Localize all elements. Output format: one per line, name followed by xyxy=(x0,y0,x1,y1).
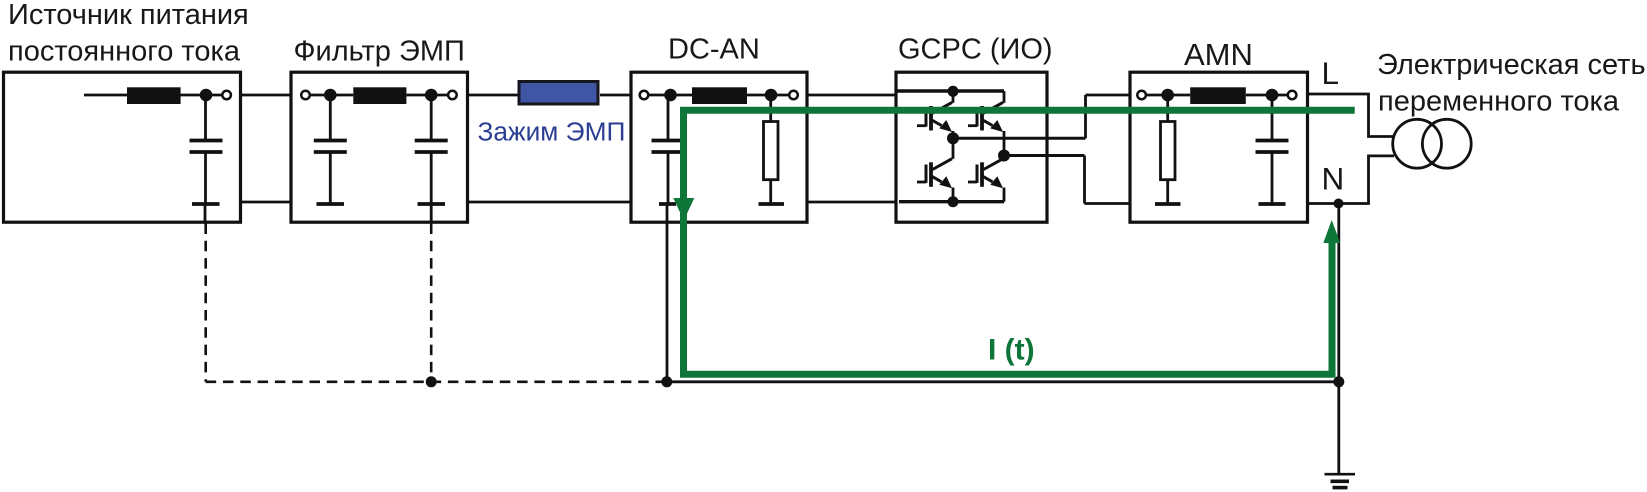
wire filter cap1 top xyxy=(329,95,332,140)
inductor L2 filter xyxy=(353,87,406,104)
wire top rail DC-AN to GCPC xyxy=(807,94,897,97)
wire DC-AN cap top xyxy=(667,95,670,140)
terminal source output xyxy=(222,91,231,100)
svg-text:L: L xyxy=(1322,55,1340,91)
transistor Q4 bottom-right IGBT xyxy=(968,156,1004,202)
bar AMN cap ground xyxy=(1259,202,1286,206)
node N junction xyxy=(1334,199,1344,209)
bar DC-AN cap ground xyxy=(659,202,676,206)
terminal filter input xyxy=(301,91,310,100)
block EMI filter box xyxy=(291,72,468,222)
wire AMN resistor bottom xyxy=(1166,180,1169,203)
ferrite clamp EMI xyxy=(519,82,598,105)
ground xyxy=(1325,474,1356,487)
bar filter cap2 ground xyxy=(418,202,446,206)
terminal DC-AN output xyxy=(789,91,798,100)
wire GCPC phase A riser xyxy=(1084,95,1087,138)
wire filter cap2 top xyxy=(430,95,433,140)
node GCPC bottom junction xyxy=(948,196,959,207)
terminal AMN input xyxy=(1137,91,1146,100)
wire source cap stub xyxy=(204,204,207,222)
bar DC-AN resistor ground xyxy=(759,202,785,206)
wire DC-AN input xyxy=(648,94,692,97)
terminal DC-AN input xyxy=(640,91,649,100)
node AMN right junction xyxy=(1266,89,1279,102)
wire AMN to mains N xyxy=(1308,156,1394,204)
transistor Q2 bottom-left IGBT xyxy=(917,138,953,201)
wire source internal xyxy=(84,94,206,97)
inductor L4 AMN xyxy=(1190,87,1246,104)
node filter left junction xyxy=(324,89,337,102)
wire GCPC phase A xyxy=(953,137,1086,140)
wire GCPC bottom rail xyxy=(899,200,1004,203)
node reference ground left xyxy=(661,376,672,387)
capacitor C3 filter xyxy=(415,141,448,153)
block GCPC box xyxy=(896,72,1047,222)
wire source cap top xyxy=(204,95,207,140)
wire filter output xyxy=(406,94,448,97)
current loop I(t) green path xyxy=(684,110,1355,374)
svg-text:Электрическая сеть: Электрическая сеть xyxy=(1377,49,1646,81)
wire bottom rail filter to DC-AN xyxy=(468,201,632,204)
wire AMN output xyxy=(1246,94,1289,97)
svg-text:постоянного тока: постоянного тока xyxy=(8,36,241,68)
wire DC-AN resistor bottom xyxy=(769,180,772,203)
svg-text:Источник питания: Источник питания xyxy=(8,0,249,31)
wire dashed bottom link xyxy=(206,380,667,383)
wire AMN cap top xyxy=(1271,95,1274,140)
svg-text:N: N xyxy=(1322,161,1345,197)
wire dashed source drop xyxy=(204,224,207,382)
wire bottom rail DC-AN to GCPC xyxy=(807,201,897,204)
wire top rail source to filter xyxy=(241,94,292,97)
wire dashed filter drop xyxy=(430,224,433,382)
block AMN box xyxy=(1130,72,1308,222)
node GCPC top junction xyxy=(948,86,959,97)
wire phase B to AMN xyxy=(1085,202,1131,205)
node GCPC mid-right junction xyxy=(998,150,1010,162)
transistor Q1 top-left IGBT xyxy=(917,91,953,138)
svg-text:Зажим ЭМП: Зажим ЭМП xyxy=(478,117,626,147)
svg-text:Фильтр ЭМП: Фильтр ЭМП xyxy=(294,36,465,68)
capacitor C5 AMN xyxy=(1256,141,1289,153)
node dashed junction xyxy=(426,376,437,387)
arrow down current into ground xyxy=(673,198,694,221)
wire AMN cap bottom xyxy=(1271,152,1274,203)
node DC-AN right junction xyxy=(765,89,778,102)
node DC-AN left junction xyxy=(664,89,677,102)
node source junction xyxy=(200,89,213,102)
wire reference ground line xyxy=(667,380,1339,383)
label: DC source title xyxy=(8,0,249,68)
resistor R2 AMN xyxy=(1161,122,1176,180)
node GCPC mid-left junction xyxy=(947,132,959,144)
inductor L1 source xyxy=(127,87,181,104)
wire filter cap1 bottom xyxy=(329,152,332,203)
bar AMN resistor ground xyxy=(1155,202,1181,206)
wire DC-AN output xyxy=(747,94,790,97)
svg-text:AMN: AMN xyxy=(1184,37,1253,72)
capacitor C2 filter xyxy=(314,141,347,153)
wire bottom rail source to filter xyxy=(241,201,292,204)
block DC source box xyxy=(4,72,241,222)
svg-text:DC-AN: DC-AN xyxy=(668,33,760,65)
resistor R1 DC-AN xyxy=(764,122,779,180)
bar source cap ground xyxy=(192,202,220,206)
wire DC-AN cap bottom xyxy=(667,152,670,203)
transistor Q3 top-right IGBT xyxy=(968,91,1004,156)
wire filter cap2 bottom xyxy=(430,152,433,203)
label: AC mains title xyxy=(1377,49,1646,118)
wire AMN to mains L xyxy=(1308,94,1394,137)
wire GCPC top rail xyxy=(897,89,1004,92)
capacitor C4 DC-AN xyxy=(652,141,685,153)
inductor L3 DC-AN xyxy=(692,87,747,104)
wire DC-AN ground drop xyxy=(666,204,669,382)
wire source to terminal xyxy=(206,94,224,97)
AC source circle right xyxy=(1422,119,1471,168)
AC source circle left xyxy=(1393,119,1442,168)
wire earth drop from N xyxy=(1337,204,1340,475)
node filter right junction xyxy=(425,89,438,102)
arrow up current into N xyxy=(1323,220,1340,243)
wire phase A to AMN xyxy=(1086,94,1131,97)
wire source cap bottom xyxy=(204,152,207,203)
svg-text:переменного тока: переменного тока xyxy=(1378,86,1620,118)
svg-text:I (t): I (t) xyxy=(988,334,1035,367)
wire DC-AN resistor top xyxy=(769,95,772,122)
wire GCPC phase B xyxy=(1004,154,1085,157)
capacitor C1 source xyxy=(190,141,223,153)
wire filter input xyxy=(309,94,353,97)
terminal AMN output xyxy=(1288,91,1297,100)
block DC-AN box xyxy=(631,72,807,222)
wire filter cap2 stub xyxy=(430,204,433,222)
terminal filter output xyxy=(448,91,457,100)
node earth junction xyxy=(1333,376,1344,387)
wire AMN input xyxy=(1145,94,1190,97)
bar filter cap1 ground xyxy=(317,202,345,206)
wire top rail clamp to DC-AN xyxy=(600,94,631,97)
wire top rail filter to clamp xyxy=(468,94,520,97)
node AMN left junction xyxy=(1161,89,1174,102)
svg-text:GCPC (ИО): GCPC (ИО) xyxy=(898,33,1053,65)
wire GCPC phase B dropper xyxy=(1083,156,1086,204)
wire AMN resistor top xyxy=(1166,95,1169,122)
